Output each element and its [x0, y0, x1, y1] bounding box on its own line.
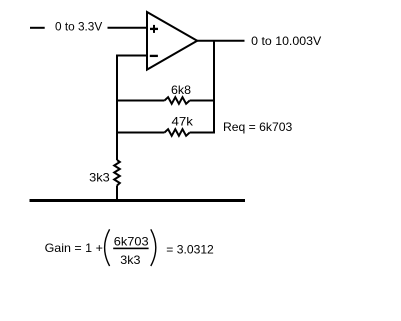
formula close parenthesis: [151, 229, 156, 266]
svg-text:Req = 6k703: Req = 6k703: [223, 120, 293, 134]
annotation gain formula: [45, 229, 215, 266]
ground rail: [30, 199, 246, 202]
wire input stub: [30, 27, 45, 29]
svg-text:0 to 3.3V: 0 to 3.3V: [55, 20, 102, 34]
svg-text:3k3: 3k3: [120, 253, 141, 267]
formula fraction bar: [113, 248, 148, 250]
svg-text:Gain = 1 +: Gain = 1 +: [45, 241, 103, 255]
resistor R3 3k3 (vertical): [114, 160, 120, 200]
resistor R1 6k8: [117, 97, 214, 104]
svg-text:= 3.0312: = 3.0312: [166, 242, 214, 256]
svg-text:47k: 47k: [172, 114, 194, 128]
wire output: [197, 40, 245, 42]
svg-text:6k703: 6k703: [114, 235, 149, 249]
pin -: [150, 55, 158, 57]
resistor R2 47k: [117, 129, 214, 136]
formula open parenthesis: [105, 229, 110, 266]
pin +: [150, 28, 158, 30]
wire inverting input horizontal: [116, 55, 147, 57]
svg-text:3k3: 3k3: [89, 170, 110, 184]
svg-text:0 to 10.003V: 0 to 10.003V: [251, 34, 321, 48]
wire input to op-amp non-inverting pin: [108, 27, 148, 29]
wire feedback right vertical (output to resistor bank): [213, 41, 215, 134]
svg-text:6k8: 6k8: [171, 83, 191, 97]
op-amp U1: [147, 12, 197, 70]
wire feedback left vertical: [116, 56, 118, 161]
